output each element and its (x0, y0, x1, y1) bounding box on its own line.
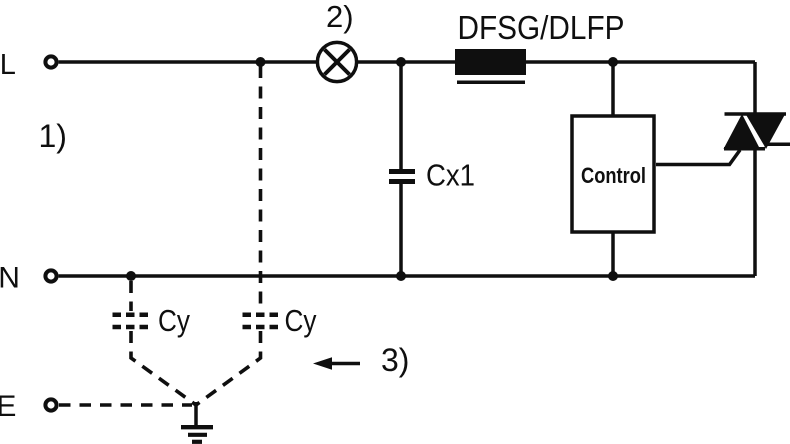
svg-text:E: E (0, 390, 16, 423)
svg-text:DFSG/DLFP: DFSG/DLFP (458, 9, 625, 46)
svg-text:Cy: Cy (285, 304, 318, 338)
svg-text:2): 2) (326, 0, 354, 34)
svg-text:L: L (0, 49, 16, 81)
svg-text:1): 1) (39, 118, 67, 154)
svg-text:3): 3) (381, 342, 409, 378)
svg-text:Cx1: Cx1 (426, 159, 475, 193)
svg-text:Cy: Cy (158, 304, 191, 338)
svg-text:Control: Control (581, 163, 646, 188)
svg-text:N: N (0, 262, 20, 295)
